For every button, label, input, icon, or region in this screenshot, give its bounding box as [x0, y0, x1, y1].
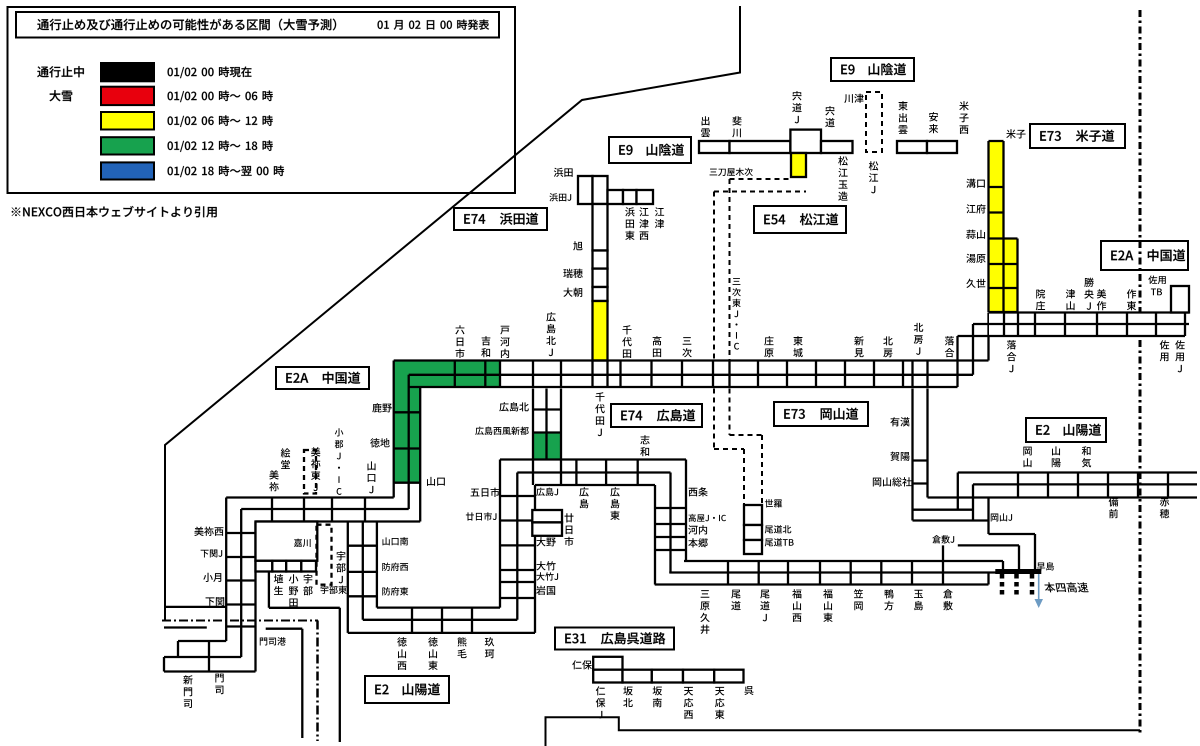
station Onomichi: [731, 590, 740, 599]
Kyushu coast line B: [266, 629, 303, 738]
Chugoku-do west corner/vertical lines: [226, 361, 420, 672]
station Kamogata: [885, 589, 894, 598]
station Sakaminami: [653, 686, 662, 695]
station Ogori-JCT-IC: [335, 428, 344, 436]
station Kawatsu: [844, 94, 853, 103]
station Hamada-higashi: [625, 207, 634, 216]
Sanyo-do Hiroshima top chain lines: [500, 460, 686, 633]
station Mimasaka: [1097, 289, 1106, 298]
E9 east chain boxes: [897, 141, 927, 153]
Yonago-do chain lines: [989, 141, 1018, 312]
station Edo: [281, 448, 291, 457]
E54 Mitoya-Kisuki yellow box: [791, 153, 806, 177]
station Shiwa: [640, 435, 649, 444]
station Saijo: [689, 488, 698, 497]
station Teno-higashi: [715, 687, 724, 696]
Sayo-TB box: [1171, 286, 1189, 313]
station Kuse: [966, 279, 975, 288]
route label E31 Hiroshima-Kure-doro: [555, 628, 674, 650]
Kanmon strait dash-dot line: [162, 620, 318, 622]
station Onomichi-kita: [765, 526, 773, 534]
station Muikaichi: [455, 325, 464, 334]
route label E73 Okayama-do: [774, 402, 868, 426]
legend row5 text: [168, 167, 173, 176]
legend row3 text: [168, 116, 173, 125]
route label E9 Sanin-do (top): [831, 58, 914, 81]
station Matsue-JCT: [869, 161, 879, 170]
route label E2A Chugoku-do (right): [1101, 241, 1188, 270]
station Yamaguchi-minami: [383, 537, 390, 545]
Kure chain boxes: [593, 670, 622, 683]
Sanyo-do west main chain lines: [655, 545, 1019, 584]
station Kurashiki-JCT: [932, 535, 940, 543]
station Kayo: [890, 452, 899, 461]
station Sayo-JCT: [1175, 340, 1185, 349]
station Sakuto: [1127, 289, 1136, 298]
station Oasa: [563, 288, 572, 297]
Chugoku-do lower chain lines: [394, 313, 989, 388]
station Hongo: [688, 538, 698, 547]
station Okayama-JCT: [991, 514, 999, 522]
station Kofu: [966, 204, 975, 213]
station Niho-JCT: [596, 686, 605, 695]
station Hokubo: [883, 336, 893, 345]
station Higashi-Izumo: [898, 101, 907, 110]
legend row4 green swatch: [101, 137, 154, 154]
station Bizen: [1109, 497, 1119, 506]
station Yonago-nishi: [959, 101, 968, 110]
Hamada-do yellow box: [593, 301, 608, 361]
E54/Onomichi-do dashed below Chugoku-do: [714, 389, 730, 450]
station Onomichi-JCT: [760, 590, 769, 599]
station Hatsukaichi: [565, 513, 574, 522]
station Togouchi: [500, 326, 509, 335]
Chugoku-do green fill: [394, 361, 500, 388]
station Habu: [274, 574, 283, 583]
station Mihara-kui: [701, 590, 710, 598]
station Shinji: [825, 106, 834, 115]
station Fukuyama-nishi: [792, 589, 801, 598]
Kanmon tunnel line: [164, 626, 207, 628]
station Hamada-JCT: [549, 193, 558, 201]
station Hikawa: [732, 116, 741, 125]
Kure top box: [593, 657, 622, 670]
station Mizuho: [563, 269, 572, 278]
station Yubara: [966, 254, 975, 263]
station Miyoshi: [683, 337, 692, 345]
Mine dashed box: [304, 450, 316, 494]
station Innosho: [1036, 289, 1045, 298]
station Hiroshima (Sanyo): [579, 487, 588, 496]
station Ukan: [890, 417, 899, 426]
station Niimi: [854, 336, 863, 345]
route label E2 Sanyo-do (right): [1026, 418, 1106, 442]
station Kurashiki: [943, 589, 952, 598]
station Fukuyama-higashi: [823, 589, 832, 598]
station Hiruzen: [966, 230, 975, 239]
prefecture boundary dash-dot vertical east: [1139, 10, 1142, 734]
station Yasugi: [929, 112, 938, 121]
station Otake: [536, 561, 545, 570]
Ube-JCT dashed box: [317, 525, 332, 585]
station Hayashima: [1037, 563, 1045, 571]
station Onomichi-TB: [765, 539, 773, 547]
station Kumage: [457, 637, 466, 646]
station Hatsukaichi-JCT: [466, 512, 474, 520]
coastline Honshu northwest: [165, 6, 740, 620]
station Mine-west stair labels: [194, 527, 203, 536]
station Takaya-JCT-IC: [689, 514, 696, 522]
station San-yo: [1052, 446, 1060, 455]
station Kuga: [485, 637, 494, 646]
legend title box: [16, 12, 499, 38]
station Kagawa: [294, 539, 302, 547]
station Ono: [536, 537, 545, 546]
route label E74 Hamada-do: [454, 208, 547, 230]
Honshi blue arrow: [1038, 574, 1040, 600]
station Shoo-JCT: [1084, 278, 1094, 287]
Kanmon strait boundary vertical: [316, 621, 319, 742]
station Moji: [215, 674, 223, 683]
Yonago-do yellow fill: [989, 141, 1004, 312]
route label E2A Chugoku-do (left): [276, 367, 369, 389]
station Asahi: [573, 241, 582, 250]
station Onoda: [289, 574, 299, 583]
station Kure: [744, 686, 753, 695]
legend row2 text: [168, 92, 173, 101]
route label E9 Sanin-do (left): [609, 137, 691, 163]
station Ako: [1160, 497, 1169, 506]
station Takata: [653, 336, 662, 345]
station Okayama-Soja: [873, 478, 881, 487]
station Hiroshima-kita-JCT: [546, 312, 555, 321]
station Chiyoda: [622, 325, 631, 334]
station Hiroshima-kita: [499, 402, 508, 411]
station Sakakita: [623, 686, 632, 695]
station Tokuji: [370, 438, 380, 447]
station Shinji-JCT: [792, 91, 801, 100]
legend row2 red swatch: [101, 87, 154, 105]
Onomichi-do dashed jog: [714, 435, 762, 505]
legend row1 label: [37, 66, 48, 77]
Hiroshima-do column lines: [533, 389, 561, 460]
station Kasaoka: [854, 589, 863, 598]
station Okayama: [1023, 447, 1031, 456]
station Sera: [765, 499, 773, 507]
station Tamashima: [914, 590, 923, 598]
legend row2 label: [49, 90, 60, 101]
station Ochiai: [945, 336, 954, 345]
station Mitoya-Kisuki: [710, 169, 718, 176]
station Nihoro: [572, 660, 581, 669]
station Kochi: [688, 525, 697, 534]
station Tokuyama-nishi: [397, 637, 407, 646]
Honshi dotted stubs: [1002, 574, 1032, 598]
Okayama-do column lines: [913, 389, 989, 521]
E54 dashed route upper: [714, 179, 806, 192]
station Tokuyama-higashi: [428, 637, 438, 646]
Hayashima closed black bar: [995, 569, 1041, 574]
Hamada-do column boxes: [593, 204, 608, 251]
station Shobara: [764, 336, 773, 345]
legend row3 yellow swatch: [101, 112, 154, 130]
route label E54 Matsue-do: [754, 206, 846, 233]
coastline Seto inland sea (bottom): [546, 717, 1141, 746]
legend title text: [37, 19, 49, 30]
station Hofu-higashi: [382, 587, 390, 595]
station Mine: [269, 470, 278, 479]
station Wake: [1082, 446, 1091, 455]
station Gotsu-nishi: [639, 207, 648, 216]
station Mizokuchi: [966, 179, 975, 188]
Kagawa box: [256, 522, 318, 561]
route label E2 Sanyo-do (bottom): [365, 676, 449, 703]
Chugoku-do upper chain white fill: [989, 313, 1185, 337]
Kanmon area boxes: [164, 641, 256, 672]
Kyushu coast line A: [269, 572, 340, 743]
Sanyo-do east chain lines: [958, 473, 1197, 571]
station Izumo: [702, 116, 710, 125]
Sanyo-do west loop lines: [348, 522, 535, 633]
station Tojo: [793, 336, 802, 345]
station Hokubo-JCT: [914, 323, 924, 332]
Hamada-do top boxes: [578, 176, 593, 204]
source note: [12, 207, 21, 216]
station Yonago: [1006, 129, 1015, 138]
station Kano: [372, 403, 381, 412]
station Iwakuni: [536, 586, 545, 595]
station Mojiko: [260, 638, 267, 646]
Hamada branch boxes: [608, 190, 624, 204]
station Sayo: [1160, 340, 1170, 349]
station Itsukaichi: [471, 489, 480, 497]
station Otake-JCT: [536, 572, 544, 580]
station Ube: [304, 574, 313, 583]
Chugoku-do upper chain lines (east of Ochiai): [958, 313, 1190, 337]
legend row5 blue swatch: [101, 162, 154, 179]
station Mine-higashi-JCT: [311, 447, 320, 456]
route label E73 Yonago-do: [1030, 124, 1125, 148]
station Sayo-TB label: [1148, 275, 1157, 284]
Ube chain boxes: [256, 561, 273, 572]
Kanmon coast line west: [166, 606, 226, 608]
station Chiyoda-JCT: [595, 392, 604, 401]
Onomichi-do boxes Sera..Onomichi-TB: [744, 505, 762, 525]
legend outer box: [8, 7, 516, 193]
station Gotsu: [655, 207, 664, 216]
Hiroshima-do green fill: [533, 433, 561, 460]
legend row1 black swatch: [101, 63, 154, 81]
station Hamada: [554, 168, 563, 177]
station Hiroshima-higashi: [610, 487, 619, 496]
station Hofu-nishi: [382, 563, 390, 571]
station Ube-JCT: [337, 551, 346, 560]
route label E74 Hiroshima-do: [611, 404, 702, 427]
station Ochiai-JCT: [1007, 340, 1016, 349]
station Matsue-Tamatsukuri: [838, 156, 848, 165]
station Miyoshi-higashi-JCT-IC: [733, 278, 741, 285]
station Hiroshima-JCT: [536, 488, 545, 496]
station Shin-Moji: [183, 675, 192, 684]
E9 Kawatsu dashed box: [866, 92, 882, 152]
E9 Sanin-do main chain boxes: [699, 141, 730, 153]
station Yoshiwa: [482, 336, 491, 345]
station Hiroshima-seifu-shinto: [475, 427, 484, 435]
legend row1 text: [168, 68, 173, 77]
station Tsuyama: [1066, 289, 1075, 298]
station Yamaguchi-JCT: [368, 461, 376, 470]
legend row4 text: [168, 141, 173, 150]
Honshi-kosoku text: [1044, 582, 1056, 592]
station Teno-nishi: [684, 687, 693, 696]
Hatsukaichi spur boxes: [532, 510, 562, 522]
station Yamaguchi: [427, 477, 435, 486]
E54 dashed corridor: [714, 179, 730, 363]
station Ube-higashi: [321, 586, 329, 594]
